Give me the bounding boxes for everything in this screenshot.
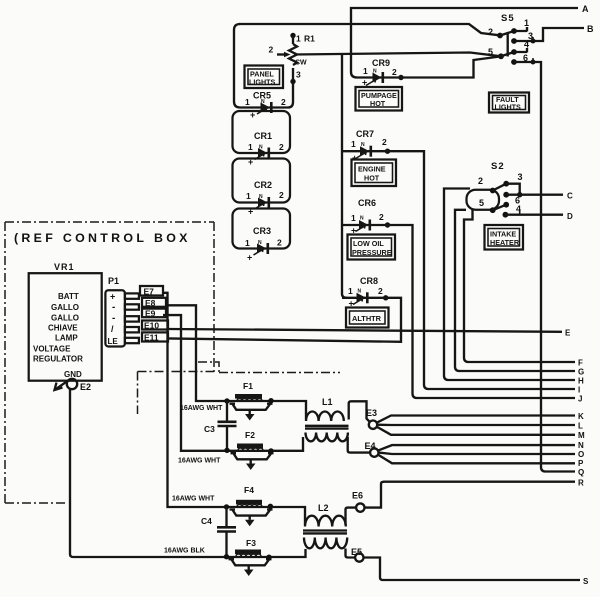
- P1 pin 2: [125, 304, 139, 309]
- P1 pin 4: [125, 327, 139, 332]
- svg-text:N: N: [358, 289, 362, 295]
- wire: CR8 pin2 right, down, left to E11: [167, 298, 401, 342]
- svg-text:1: 1: [363, 66, 368, 76]
- svg-text:ENGINE: ENGINE: [358, 165, 386, 174]
- fuse F1: [224, 381, 273, 421]
- terminal E5: [351, 547, 363, 562]
- control box dashed border top: [5, 221, 214, 223]
- svg-text:-: -: [112, 302, 115, 313]
- voltage regulator VR1: [29, 262, 102, 381]
- svg-text:CW: CW: [295, 60, 307, 67]
- svg-text:F: F: [578, 359, 583, 368]
- low oil pressure label box: [348, 235, 396, 260]
- svg-text:HOT: HOT: [364, 174, 380, 183]
- wire: CR9 pin2 up to S5 contact 5: [357, 57, 500, 78]
- svg-text:2: 2: [392, 67, 397, 77]
- svg-text:(REF CONTROL BOX: (REF CONTROL BOX: [14, 231, 191, 245]
- S5 wiper arm upper: [500, 31, 514, 36]
- S5 wiper arm lower: [501, 52, 514, 56]
- svg-text:C: C: [567, 192, 573, 201]
- svg-text:F4: F4: [244, 485, 254, 495]
- wire: S5 contact 6 down long run to node Q: [514, 62, 575, 472]
- wire: CR7 pin2 right and down to node I: [342, 151, 575, 389]
- diode CR2: [246, 180, 284, 217]
- ground symbol: [56, 381, 68, 389]
- svg-text:R1: R1: [304, 34, 315, 44]
- wire: L2 primary right to terminal E6: [346, 508, 357, 525]
- svg-text:E6: E6: [352, 491, 363, 501]
- wire: node A line from CR9 top corner to terminal A: [351, 8, 578, 78]
- wire: L2 secondary right to terminal E5: [346, 549, 356, 558]
- wire: E3 fan to node L: [377, 424, 575, 427]
- svg-text:1: 1: [351, 213, 356, 223]
- wire: panel lights loop top edge to S5 contact 2: [239, 24, 500, 35]
- svg-text:E8: E8: [145, 298, 156, 308]
- P1 pin 5: [125, 338, 139, 343]
- svg-text:16AWG WHT: 16AWG WHT: [180, 405, 223, 412]
- fuse F3: [224, 538, 272, 576]
- indicator loop CR2: [233, 159, 291, 203]
- svg-text:2: 2: [378, 286, 383, 296]
- terminal E8: [142, 298, 166, 308]
- svg-text:2: 2: [382, 137, 387, 147]
- svg-text:N: N: [578, 441, 584, 450]
- svg-text:3: 3: [518, 172, 523, 182]
- S5 contact 6: [511, 59, 517, 65]
- S2 contact 6: [503, 192, 509, 198]
- svg-text:2: 2: [279, 190, 284, 200]
- wire: R1 wiper to S5 contact 5: [294, 53, 501, 57]
- svg-text:N: N: [259, 194, 263, 200]
- wire: L1 primary right to terminal E3: [349, 401, 370, 421]
- diode CR6: [351, 198, 390, 236]
- svg-text:1: 1: [296, 34, 301, 44]
- svg-text:C4: C4: [201, 516, 212, 526]
- indicator loop CR1: [233, 111, 291, 153]
- control box dashed border right: [213, 222, 215, 373]
- svg-text:1: 1: [348, 286, 353, 296]
- svg-text:N: N: [259, 145, 263, 151]
- svg-text:N: N: [361, 142, 365, 148]
- svg-text:HOT: HOT: [370, 99, 386, 108]
- svg-text:1: 1: [351, 139, 356, 149]
- svg-text:4: 4: [524, 40, 529, 50]
- wire: CR6 pin2 right and down to node J: [342, 225, 575, 398]
- S5 contact 4 stub: [514, 48, 527, 53]
- wire: S2 contact 2 feed down to node H: [444, 189, 575, 381]
- S5 contact 2: [497, 33, 503, 39]
- svg-text:O: O: [578, 450, 584, 459]
- R1 wiper arrow: [277, 53, 285, 55]
- capacitor C4: [201, 507, 236, 557]
- svg-text:N: N: [258, 240, 262, 246]
- svg-text:LOW OIL: LOW OIL: [353, 239, 384, 248]
- svg-text:M: M: [578, 431, 585, 440]
- svg-text:R: R: [578, 479, 584, 488]
- fuse F4: [224, 485, 273, 526]
- svg-text:E: E: [565, 329, 571, 338]
- svg-text:D: D: [567, 212, 573, 221]
- P1 pin 1: [125, 293, 139, 298]
- svg-text:E9: E9: [145, 309, 156, 319]
- svg-text:J: J: [578, 395, 582, 404]
- svg-text:E2: E2: [80, 382, 91, 392]
- S2 contact 2: [490, 188, 496, 194]
- svg-text:+: +: [110, 292, 115, 302]
- terminal E11: [142, 332, 168, 342]
- svg-text:5: 5: [488, 47, 493, 57]
- svg-text:CR3: CR3: [253, 226, 271, 236]
- wire: S2 contact 5 feed down to node G: [455, 210, 575, 371]
- svg-text:2: 2: [379, 212, 384, 222]
- switch S2: [467, 161, 523, 218]
- svg-text:CR7: CR7: [356, 129, 374, 139]
- svg-text:2: 2: [277, 238, 282, 248]
- svg-text:CR1: CR1: [254, 131, 272, 141]
- wire: E3 fan to node M: [377, 427, 575, 435]
- diode CR7: [351, 129, 390, 163]
- wire: S2 rotor bottom feed down to node F: [464, 210, 575, 363]
- svg-text:E10: E10: [144, 321, 159, 331]
- svg-text:GND: GND: [64, 370, 82, 379]
- terminal E3: [366, 408, 377, 429]
- svg-text:/: /: [111, 324, 114, 334]
- diode CR9: [362, 58, 404, 88]
- diode CR1: [248, 131, 284, 167]
- terminal E7: [140, 286, 163, 297]
- control box dashed border bottom stub: [5, 502, 68, 504]
- svg-text:I: I: [578, 386, 580, 395]
- S2 wiper arm lower: [493, 205, 507, 211]
- wire: S2 contact 6 to node C: [506, 194, 563, 196]
- control box dashed border left: [4, 222, 6, 503]
- svg-text:1: 1: [245, 238, 250, 248]
- diode CR5: [245, 91, 286, 121]
- svg-text:16AWG WHT: 16AWG WHT: [172, 496, 215, 503]
- svg-text:16AWG BLK: 16AWG BLK: [164, 548, 205, 555]
- svg-text:L: L: [578, 422, 583, 431]
- svg-text:P1: P1: [108, 276, 119, 286]
- S5 mechanical link: [507, 32, 509, 57]
- svg-text:1: 1: [246, 191, 251, 201]
- svg-text:-: -: [112, 313, 115, 324]
- svg-text:N: N: [373, 69, 377, 75]
- svg-text:L1: L1: [322, 397, 333, 407]
- wire: E4 fan to node O: [379, 453, 576, 454]
- capacitor C3: [204, 401, 237, 450]
- terminal E4: [365, 441, 379, 457]
- svg-text:BATT: BATT: [58, 292, 79, 301]
- svg-text:REGULATOR: REGULATOR: [33, 355, 83, 364]
- svg-text:CR2: CR2: [254, 180, 272, 190]
- svg-text:2: 2: [478, 176, 483, 186]
- svg-text:Q: Q: [578, 468, 584, 477]
- svg-text:G: G: [578, 368, 584, 377]
- svg-text:F1: F1: [243, 381, 253, 391]
- S2 contact 3 stub: [506, 184, 520, 195]
- S2 rotor body: [467, 190, 500, 210]
- S2 contact 5: [490, 207, 496, 213]
- dashed boundary lower horizontal: [138, 372, 341, 373]
- terminal E6: [352, 491, 364, 512]
- S5 contact 3: [511, 38, 517, 44]
- svg-text:CR6: CR6: [358, 198, 376, 208]
- svg-text:LIGHTS: LIGHTS: [495, 103, 522, 112]
- diode CR3: [245, 226, 282, 263]
- svg-text:LIGHTS: LIGHTS: [249, 78, 276, 87]
- svg-text:VR1: VR1: [54, 262, 75, 272]
- terminal E2 with ground: [55, 379, 92, 393]
- svg-text:P: P: [578, 459, 584, 468]
- svg-text:H: H: [578, 377, 584, 386]
- S2 contact 4: [503, 212, 509, 218]
- svg-text:F2: F2: [245, 430, 255, 440]
- svg-text:A: A: [582, 4, 589, 14]
- wire: E10 to node E: [168, 329, 562, 332]
- wire: E3 fan to node K: [377, 416, 575, 423]
- wire: F3 line to L2 secondary: [73, 549, 306, 557]
- svg-text:HEATER: HEATER: [490, 238, 520, 247]
- S5 contact 1 stub: [514, 27, 527, 32]
- svg-text:S2: S2: [491, 161, 505, 172]
- wire: feed bus from R1 wiper line down right column: [342, 54, 347, 298]
- wire: S5 contact 3 to node B: [514, 28, 584, 41]
- svg-text:E3: E3: [366, 408, 377, 418]
- fault lights label box: [489, 93, 529, 113]
- wire: E9 to F2 line to L1 secondary: [163, 315, 303, 451]
- wire: E4 fan to node P: [378, 455, 575, 464]
- diode CR8: [348, 276, 388, 309]
- svg-text:CR8: CR8: [360, 276, 378, 286]
- svg-text:CHIAVE: CHIAVE: [48, 324, 78, 333]
- inductor L2: [303, 503, 347, 548]
- inductor L1: [305, 397, 349, 441]
- panel lights label box: [245, 66, 284, 89]
- svg-text:2: 2: [281, 97, 286, 107]
- svg-text:+: +: [247, 253, 252, 263]
- svg-text:16AWG WHT: 16AWG WHT: [178, 458, 221, 465]
- svg-text:K: K: [578, 412, 584, 421]
- terminal E9: [142, 309, 166, 319]
- S5 contact 5: [498, 53, 504, 59]
- svg-text:2: 2: [269, 45, 274, 55]
- pumpage hot label box: [356, 87, 403, 111]
- svg-text:E11: E11: [144, 333, 159, 343]
- svg-text:PRESSURE: PRESSURE: [352, 248, 392, 257]
- svg-text:S: S: [583, 577, 589, 586]
- wire: E8 to F1 line to L1 primary: [166, 305, 306, 419]
- S2 wiper arm upper: [493, 184, 507, 191]
- svg-text:L2: L2: [318, 503, 329, 513]
- svg-text:ALTHTR: ALTHTR: [352, 314, 382, 323]
- fuse F2: [224, 430, 273, 470]
- svg-text:2: 2: [488, 27, 493, 37]
- svg-text:2: 2: [279, 142, 284, 152]
- svg-text:CR9: CR9: [372, 58, 390, 68]
- wire: E6 up to node R: [365, 482, 576, 508]
- intake heater label box: [485, 225, 524, 250]
- svg-text:VOLTAGE: VOLTAGE: [33, 345, 71, 354]
- wire: E5 down to node S: [364, 558, 581, 581]
- alt htr label box: [346, 308, 389, 328]
- P1 pin 3: [125, 316, 139, 321]
- svg-text:5: 5: [479, 198, 484, 208]
- terminal E10: [142, 321, 168, 331]
- wire: E7 to F4 line to L2 primary: [163, 293, 305, 525]
- svg-text:S5: S5: [501, 13, 515, 24]
- connector P1: [105, 276, 138, 347]
- indicator loop CR3: [233, 209, 291, 249]
- svg-text:1: 1: [248, 142, 253, 152]
- svg-text:N: N: [360, 216, 364, 222]
- wire: E4 fan to node N: [378, 445, 575, 451]
- svg-text:LE: LE: [108, 337, 119, 346]
- wire: panel lights loop (left/bottom edges) with R1 pin3 right edge: [234, 24, 293, 108]
- svg-text:GALLO: GALLO: [51, 314, 79, 323]
- engine hot label box: [352, 160, 397, 187]
- svg-text:1: 1: [245, 97, 250, 107]
- dashed boundary lower-left vertical: [137, 372, 139, 415]
- svg-text:B: B: [587, 24, 594, 34]
- dashed boundary notch: [198, 362, 219, 372]
- potentiometer R1: [269, 33, 316, 84]
- svg-text:3: 3: [296, 70, 301, 80]
- svg-text:4: 4: [516, 204, 521, 214]
- switch S5: [488, 13, 536, 65]
- svg-text:E7: E7: [144, 287, 155, 297]
- svg-text:1: 1: [524, 18, 529, 28]
- svg-text:+: +: [352, 153, 357, 163]
- svg-text:N: N: [261, 99, 265, 105]
- svg-text:GALLO: GALLO: [51, 303, 79, 312]
- svg-text:LAMP: LAMP: [55, 334, 78, 343]
- svg-text:C3: C3: [204, 424, 215, 434]
- wire: S2 contact 4 to node D: [505, 214, 563, 216]
- svg-text:F3: F3: [246, 538, 256, 548]
- wire: E2 down to F3 line: [70, 389, 73, 557]
- wire: L1 secondary right to terminal E4: [348, 437, 370, 453]
